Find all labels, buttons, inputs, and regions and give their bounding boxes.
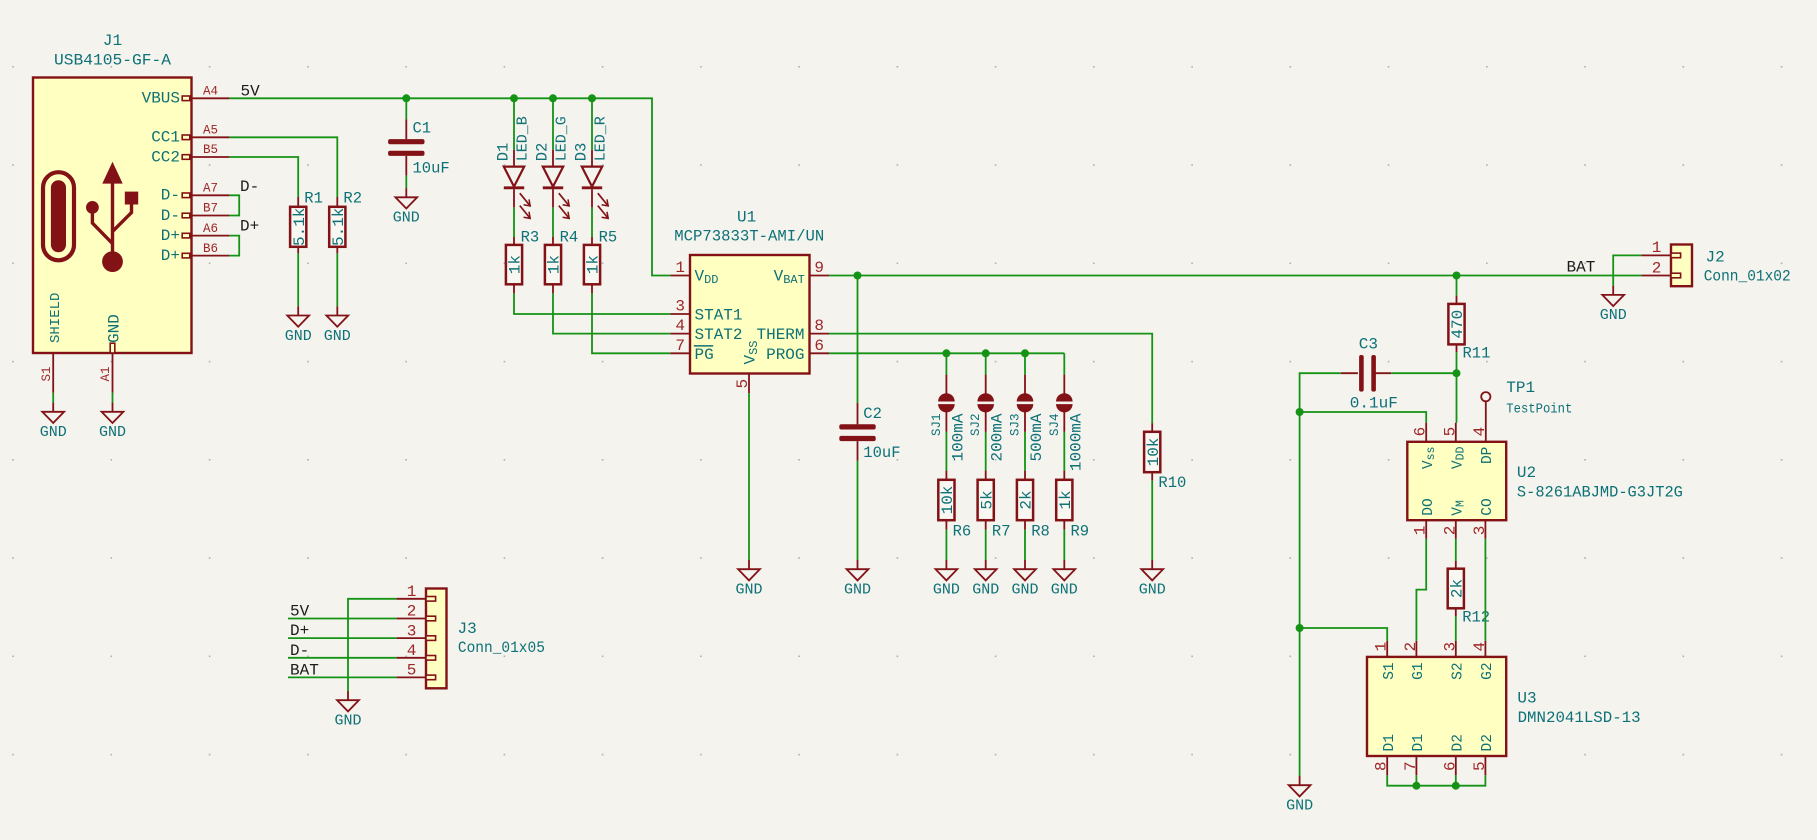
ground under R1 bbox=[285, 306, 312, 345]
svg-text:8: 8 bbox=[1373, 761, 1391, 771]
wire D+ to J3 bbox=[288, 637, 397, 639]
resistor R12 2k bbox=[1448, 561, 1490, 627]
U3 bottom bus wire bbox=[1387, 775, 1485, 785]
svg-text:LED_R: LED_R bbox=[593, 116, 610, 161]
svg-text:B7: B7 bbox=[203, 202, 218, 216]
wire PROG to SJ4 bbox=[1063, 353, 1065, 374]
svg-text:A5: A5 bbox=[203, 124, 218, 138]
wire S1 to ground bbox=[52, 393, 54, 403]
J3 pin 2 bbox=[397, 603, 436, 621]
svg-text:R5: R5 bbox=[599, 229, 618, 247]
wire A1 to ground bbox=[112, 393, 114, 403]
svg-text:BAT: BAT bbox=[1567, 259, 1596, 277]
ground under R9 bbox=[1051, 560, 1078, 599]
svg-text:R7: R7 bbox=[992, 522, 1011, 540]
junction C1 on 5V rail bbox=[402, 94, 410, 102]
J1 pin A1 GND bbox=[99, 314, 123, 393]
wire U2 VM to R12 bbox=[1455, 539, 1457, 561]
wire R9 to ground bbox=[1063, 530, 1065, 560]
ground under S1 bbox=[40, 403, 67, 442]
svg-text:GND: GND bbox=[933, 582, 960, 599]
junction SJ3 on PROG wire bbox=[1021, 349, 1029, 357]
svg-text:GND: GND bbox=[105, 314, 123, 343]
svg-text:SJ2: SJ2 bbox=[969, 414, 983, 437]
U1 pin 5 VSS bbox=[734, 340, 761, 393]
svg-text:1: 1 bbox=[1373, 642, 1391, 652]
U3 pin 8 D1 bbox=[1373, 734, 1398, 775]
svg-text:3: 3 bbox=[1441, 642, 1459, 652]
LED D3 LED_R bbox=[573, 116, 610, 218]
junction SJ2 on PROG wire bbox=[982, 349, 990, 357]
ground under R10 bbox=[1139, 560, 1166, 599]
svg-text:D3: D3 bbox=[573, 143, 591, 162]
wire R5 to PG bbox=[592, 293, 670, 353]
connector J1 USB4105-GF-A bbox=[33, 32, 192, 353]
svg-text:GND: GND bbox=[1051, 582, 1078, 599]
svg-text:D+: D+ bbox=[290, 622, 309, 640]
svg-text:9: 9 bbox=[814, 259, 824, 277]
svg-text:TP1: TP1 bbox=[1506, 379, 1535, 397]
J3 pin 5 bbox=[397, 662, 436, 680]
svg-text:0.1uF: 0.1uF bbox=[1350, 395, 1398, 413]
resistor R3 1k bbox=[506, 229, 539, 294]
svg-text:2: 2 bbox=[407, 603, 417, 621]
junction C3/R11/U2-VDD node bbox=[1453, 369, 1461, 377]
wire R8 to ground bbox=[1024, 530, 1026, 560]
U3 pin 5 D2 bbox=[1471, 734, 1496, 775]
U3 pin 4 G2 bbox=[1471, 641, 1496, 680]
junction left rail to U2 Vss bbox=[1296, 408, 1304, 416]
LED D2 LED_G bbox=[534, 116, 571, 218]
IC U3 DMN2041LSD-13 bbox=[1367, 657, 1641, 756]
IC U2 S-8261ABJMD-G3JT2G bbox=[1407, 442, 1683, 520]
wire R6 to ground bbox=[945, 530, 947, 560]
svg-text:R9: R9 bbox=[1071, 522, 1090, 540]
connector J2 Conn_01x02 bbox=[1671, 245, 1791, 287]
wire D2 to R4 bbox=[552, 207, 554, 237]
ground under C2 bbox=[844, 560, 871, 599]
svg-text:B5: B5 bbox=[203, 143, 218, 157]
U1 pin 6 PROG bbox=[766, 337, 829, 364]
svg-text:D1: D1 bbox=[1382, 734, 1398, 751]
wire left rail to U2 Vss bbox=[1300, 412, 1427, 423]
svg-text:G1: G1 bbox=[1411, 662, 1427, 679]
ground under R7 bbox=[972, 560, 999, 599]
svg-text:5: 5 bbox=[734, 379, 752, 389]
svg-text:D1: D1 bbox=[1411, 734, 1427, 751]
svg-text:3: 3 bbox=[675, 298, 685, 316]
ground under C1 bbox=[393, 188, 420, 227]
J1 USB receptacle glyph bbox=[43, 172, 74, 260]
svg-text:LED_B: LED_B bbox=[515, 116, 532, 161]
wire R10 to ground bbox=[1151, 481, 1153, 560]
svg-text:R3: R3 bbox=[521, 229, 540, 247]
resistor R4 1k bbox=[545, 229, 578, 294]
svg-text:4: 4 bbox=[1471, 427, 1489, 437]
U3 pin 7 D1 bbox=[1402, 734, 1427, 775]
svg-text:2k: 2k bbox=[1018, 490, 1036, 509]
U3 pin 3 S2 bbox=[1441, 641, 1466, 680]
svg-text:R8: R8 bbox=[1031, 522, 1050, 540]
wire left rail to U3 S1 bbox=[1300, 628, 1388, 641]
svg-text:B6: B6 bbox=[203, 242, 218, 256]
U3 pin 2 G1 bbox=[1402, 641, 1427, 680]
svg-text:200mA: 200mA bbox=[989, 413, 1007, 461]
resistor R6 10k bbox=[938, 471, 971, 541]
resistor R1 5.1k bbox=[290, 189, 323, 253]
svg-text:5.1k: 5.1k bbox=[330, 208, 348, 246]
junction U3 pin6 bbox=[1452, 782, 1460, 790]
wire SJ3 to R8 bbox=[1024, 432, 1026, 471]
svg-text:S2: S2 bbox=[1451, 662, 1467, 679]
ground under U1 bbox=[735, 560, 762, 599]
wire R4 to STAT2 bbox=[553, 293, 670, 333]
svg-text:A1: A1 bbox=[99, 366, 113, 381]
wire BAT to R11 bbox=[1456, 276, 1458, 296]
svg-text:C3: C3 bbox=[1359, 336, 1378, 354]
svg-text:DP: DP bbox=[1480, 447, 1496, 464]
svg-text:6: 6 bbox=[1441, 761, 1459, 771]
svg-text:GND: GND bbox=[972, 582, 999, 599]
svg-text:D2: D2 bbox=[1451, 734, 1467, 751]
svg-text:S1: S1 bbox=[40, 366, 54, 381]
svg-text:1: 1 bbox=[1652, 239, 1662, 257]
connector J3 Conn_01x05 bbox=[426, 589, 545, 689]
junction U3 pin7 bbox=[1412, 782, 1420, 790]
svg-text:SJ1: SJ1 bbox=[930, 414, 944, 437]
wire D- to J3 bbox=[288, 657, 397, 659]
wire SJ4 to R9 bbox=[1063, 432, 1065, 471]
svg-text:R4: R4 bbox=[560, 229, 579, 247]
svg-text:D-: D- bbox=[161, 187, 180, 205]
svg-text:STAT2: STAT2 bbox=[695, 326, 743, 344]
svg-text:1k: 1k bbox=[585, 255, 603, 274]
wire U3 pin7 to bus bbox=[1415, 775, 1417, 785]
wire 5V to C1 bbox=[405, 98, 407, 119]
svg-text:SHIELD: SHIELD bbox=[48, 293, 64, 343]
svg-text:MCP73833T-AMI/UN: MCP73833T-AMI/UN bbox=[674, 228, 824, 246]
J1 pin A4 VBUS bbox=[142, 85, 230, 108]
svg-text:USB4105-GF-A: USB4105-GF-A bbox=[54, 52, 171, 70]
J1 pin A6 D+ bbox=[161, 222, 230, 245]
U3 pin 6 D2 bbox=[1441, 734, 1466, 775]
junction R11 on BAT rail bbox=[1453, 272, 1461, 280]
svg-text:LED_G: LED_G bbox=[554, 116, 571, 161]
resistor R7 5k bbox=[978, 471, 1011, 541]
svg-text:BAT: BAT bbox=[290, 661, 319, 679]
wire BAT to C2 bbox=[857, 276, 859, 404]
wire C3 left to left rail bbox=[1300, 373, 1341, 776]
svg-text:CO: CO bbox=[1480, 498, 1496, 515]
svg-text:J2: J2 bbox=[1706, 249, 1725, 267]
svg-text:GND: GND bbox=[1139, 582, 1166, 599]
wire SJ1 to R6 bbox=[945, 432, 947, 471]
svg-text:4: 4 bbox=[1471, 642, 1489, 652]
svg-text:5: 5 bbox=[407, 662, 417, 680]
J2 pin 2 bbox=[1642, 259, 1681, 278]
svg-text:1: 1 bbox=[407, 583, 417, 601]
junction SJ1 on PROG wire bbox=[942, 349, 950, 357]
svg-text:5V: 5V bbox=[290, 603, 310, 621]
svg-text:D2: D2 bbox=[1480, 734, 1496, 751]
resistor R5 1k bbox=[584, 229, 617, 294]
svg-text:GND: GND bbox=[1286, 798, 1313, 815]
wire U3 pin6 to bus bbox=[1455, 775, 1457, 785]
svg-text:R10: R10 bbox=[1158, 474, 1186, 492]
svg-text:VBUS: VBUS bbox=[142, 90, 180, 108]
J1 pin S1 SHIELD bbox=[40, 293, 64, 393]
wire U1 VSS to ground bbox=[748, 393, 750, 560]
svg-text:D-: D- bbox=[290, 642, 309, 660]
ground under left rail bbox=[1286, 776, 1313, 815]
J1 pin B7 D- bbox=[161, 202, 230, 225]
svg-text:5: 5 bbox=[1441, 427, 1459, 437]
wire U2 DO to U3 G1 bbox=[1416, 539, 1426, 641]
svg-text:STAT1: STAT1 bbox=[695, 307, 743, 325]
svg-text:1k: 1k bbox=[1057, 490, 1075, 509]
svg-text:S1: S1 bbox=[1382, 662, 1398, 679]
wire 5V to D1 bbox=[513, 98, 515, 149]
svg-text:1: 1 bbox=[1412, 526, 1430, 536]
junction D3 on 5V rail bbox=[588, 94, 596, 102]
J1 pin B6 D+ bbox=[161, 242, 230, 265]
U2 pin 5 VDD bbox=[1441, 423, 1467, 469]
svg-text:U2: U2 bbox=[1517, 464, 1536, 482]
5V rail wire bbox=[229, 98, 670, 275]
ground under J3 bbox=[334, 691, 361, 730]
PROG wire bbox=[829, 352, 1064, 354]
svg-text:470: 470 bbox=[1449, 310, 1467, 339]
wire node to U2 VDD bbox=[1456, 373, 1458, 423]
svg-text:2: 2 bbox=[1652, 259, 1662, 277]
wire R2 to ground bbox=[336, 253, 338, 306]
svg-text:4: 4 bbox=[675, 317, 685, 335]
U1 pin 8 THERM bbox=[756, 317, 829, 344]
svg-text:D-: D- bbox=[240, 178, 259, 196]
ground under R6 bbox=[933, 560, 960, 599]
svg-text:GND: GND bbox=[285, 328, 312, 345]
wire C2 to ground bbox=[857, 461, 859, 560]
U2 pin 6 Vss bbox=[1412, 423, 1438, 469]
wire 5V to J3 bbox=[288, 618, 397, 620]
J1 pin A7 D- bbox=[161, 182, 230, 205]
svg-text:SJ4: SJ4 bbox=[1048, 414, 1062, 437]
U1 pin 1 VDD bbox=[670, 259, 718, 287]
svg-text:500mA: 500mA bbox=[1028, 413, 1046, 461]
svg-text:A7: A7 bbox=[203, 182, 218, 196]
wire C1 to ground bbox=[405, 176, 407, 188]
solder jumper SJ3 500mA bbox=[1009, 375, 1047, 462]
svg-text:J3: J3 bbox=[458, 620, 477, 638]
svg-text:GND: GND bbox=[393, 210, 420, 227]
svg-text:CC1: CC1 bbox=[151, 129, 180, 147]
U2 pin 2 VM bbox=[1441, 500, 1467, 539]
wire D+ pair bbox=[229, 236, 239, 256]
capacitor C1 10uF bbox=[388, 119, 450, 177]
U2 pin 4 DP bbox=[1471, 427, 1496, 464]
svg-text:G2: G2 bbox=[1480, 662, 1496, 679]
svg-text:Conn_01x05: Conn_01x05 bbox=[458, 639, 545, 657]
svg-text:J1: J1 bbox=[103, 32, 122, 50]
svg-text:THERM: THERM bbox=[756, 326, 804, 344]
resistor R8 2k bbox=[1017, 471, 1050, 541]
svg-text:5.1k: 5.1k bbox=[291, 208, 309, 246]
U1 pin 7 PG bbox=[670, 337, 713, 364]
solder jumper SJ1 100mA bbox=[930, 375, 968, 462]
U2 pin 3 CO bbox=[1471, 498, 1496, 539]
ground under A1 bbox=[99, 403, 126, 442]
solder jumper SJ2 200mA bbox=[969, 375, 1007, 462]
svg-text:7: 7 bbox=[1402, 761, 1420, 771]
wire BAT to J3 bbox=[288, 676, 397, 678]
J3 pin 4 bbox=[397, 642, 436, 660]
wire D3 to R5 bbox=[591, 207, 593, 237]
svg-text:Conn_01x02: Conn_01x02 bbox=[1704, 268, 1791, 286]
svg-text:3: 3 bbox=[1471, 526, 1489, 536]
U1 pin 3 STAT1 bbox=[670, 298, 742, 325]
svg-text:8: 8 bbox=[814, 317, 824, 335]
svg-text:R6: R6 bbox=[953, 522, 972, 540]
LED D1 LED_B bbox=[495, 116, 532, 218]
svg-text:1: 1 bbox=[675, 259, 685, 277]
svg-text:1000mA: 1000mA bbox=[1067, 413, 1085, 471]
svg-text:2k: 2k bbox=[1448, 579, 1466, 598]
J3 pin 1 bbox=[397, 583, 436, 601]
ground under R8 bbox=[1011, 560, 1038, 599]
svg-text:R2: R2 bbox=[343, 189, 362, 207]
J1 pin A5 CC1 bbox=[151, 124, 229, 147]
junction left rail to U3 S1 bbox=[1296, 624, 1304, 632]
wire R7 to ground bbox=[985, 530, 987, 560]
svg-text:D1: D1 bbox=[495, 143, 513, 162]
svg-text:D-: D- bbox=[161, 207, 180, 225]
svg-text:6: 6 bbox=[814, 337, 824, 355]
wire U2 CO to U3 G2 bbox=[1484, 539, 1486, 641]
svg-text:GND: GND bbox=[324, 328, 351, 345]
U1 pin 4 STAT2 bbox=[670, 317, 742, 344]
wire R1 to ground bbox=[297, 253, 299, 306]
svg-text:SJ3: SJ3 bbox=[1009, 414, 1023, 437]
J3 pin 3 bbox=[397, 622, 436, 640]
wire CC2 to R1 bbox=[229, 157, 298, 197]
svg-text:D2: D2 bbox=[534, 143, 552, 162]
wire CC1 to R2 bbox=[229, 137, 337, 197]
svg-text:A4: A4 bbox=[203, 85, 218, 99]
svg-text:CC2: CC2 bbox=[151, 148, 180, 166]
svg-text:3: 3 bbox=[407, 622, 417, 640]
svg-text:GND: GND bbox=[334, 713, 361, 730]
svg-text:GND: GND bbox=[844, 582, 871, 599]
svg-text:10uF: 10uF bbox=[863, 444, 900, 462]
J2 pin 1 bbox=[1642, 239, 1681, 258]
svg-text:PG: PG bbox=[695, 346, 714, 364]
wire J3 pin1 to ground bbox=[348, 599, 397, 691]
svg-text:A6: A6 bbox=[203, 222, 218, 236]
wire R11 to C3 node bbox=[1456, 352, 1458, 373]
svg-text:U1: U1 bbox=[737, 208, 756, 226]
wire D1 to R3 bbox=[513, 207, 515, 237]
wire PROG to SJ1 bbox=[945, 353, 947, 374]
svg-text:GND: GND bbox=[99, 424, 126, 441]
svg-text:DMN2041LSD-13: DMN2041LSD-13 bbox=[1518, 709, 1641, 727]
capacitor C3 0.1uF bbox=[1341, 336, 1398, 413]
svg-text:1k: 1k bbox=[507, 255, 525, 274]
resistor R9 1k bbox=[1056, 471, 1089, 541]
svg-text:GND: GND bbox=[40, 424, 67, 441]
U3 pin 1 S1 bbox=[1373, 641, 1398, 680]
junction D1 on 5V rail bbox=[510, 94, 518, 102]
svg-text:1k: 1k bbox=[546, 255, 564, 274]
test point TP1 bbox=[1481, 379, 1572, 442]
ground under R2 bbox=[324, 306, 351, 345]
ground under J2 bbox=[1600, 286, 1627, 325]
IC U1 MCP73833T-AMI/UN bbox=[674, 208, 824, 373]
junction C2 on BAT rail bbox=[854, 272, 862, 280]
svg-text:R11: R11 bbox=[1463, 345, 1491, 363]
wire J2 pin1 to ground bbox=[1613, 255, 1641, 285]
svg-text:D+: D+ bbox=[161, 227, 180, 245]
svg-text:10k: 10k bbox=[1145, 438, 1163, 467]
resistor R2 5.1k bbox=[329, 189, 362, 253]
svg-text:5: 5 bbox=[1471, 761, 1489, 771]
svg-text:C1: C1 bbox=[413, 120, 432, 138]
svg-text:D+: D+ bbox=[161, 247, 180, 265]
svg-text:S-8261ABJMD-G3JT2G: S-8261ABJMD-G3JT2G bbox=[1517, 484, 1683, 502]
resistor R10 10k bbox=[1144, 423, 1186, 492]
BAT rail wire bbox=[829, 275, 1642, 277]
svg-text:U3: U3 bbox=[1517, 689, 1536, 707]
svg-text:GND: GND bbox=[1011, 582, 1038, 599]
svg-text:2: 2 bbox=[1402, 642, 1420, 652]
svg-text:GND: GND bbox=[1600, 307, 1627, 324]
wire SJ2 to R7 bbox=[985, 432, 987, 471]
svg-text:PROG: PROG bbox=[766, 346, 804, 364]
svg-text:C2: C2 bbox=[863, 405, 882, 423]
svg-text:TestPoint: TestPoint bbox=[1506, 402, 1572, 418]
wire 5V to D3 bbox=[591, 98, 593, 149]
solder jumper SJ4 1000mA bbox=[1048, 375, 1086, 472]
wire PROG to SJ2 bbox=[985, 353, 987, 374]
wire THERM to R10 bbox=[829, 334, 1152, 424]
svg-text:10uF: 10uF bbox=[413, 160, 450, 178]
svg-text:DO: DO bbox=[1421, 498, 1437, 515]
svg-text:D+: D+ bbox=[240, 218, 259, 236]
wire D- pair bbox=[229, 195, 239, 215]
svg-text:2: 2 bbox=[1441, 526, 1459, 536]
junction D2 on 5V rail bbox=[549, 94, 557, 102]
svg-text:6: 6 bbox=[1412, 427, 1430, 437]
svg-text:100mA: 100mA bbox=[949, 413, 967, 461]
svg-text:5V: 5V bbox=[241, 82, 261, 100]
U2 pin 1 DO bbox=[1412, 498, 1437, 539]
resistor R11 470 bbox=[1448, 296, 1490, 363]
svg-text:10k: 10k bbox=[939, 486, 957, 515]
J1 pin B5 CC2 bbox=[151, 143, 229, 166]
wire 5V to D2 bbox=[552, 98, 554, 149]
wire R12 to U3 S2 bbox=[1455, 616, 1457, 641]
J1 USB trident glyph bbox=[86, 162, 138, 272]
svg-text:4: 4 bbox=[407, 642, 417, 660]
wire PROG to SJ3 bbox=[1024, 353, 1026, 374]
svg-text:5k: 5k bbox=[978, 490, 996, 509]
capacitor C2 10uF bbox=[839, 403, 900, 462]
U1 pin 9 VBAT bbox=[774, 259, 829, 287]
svg-text:GND: GND bbox=[735, 582, 762, 599]
wire R3 to STAT1 bbox=[514, 293, 670, 314]
svg-text:7: 7 bbox=[675, 337, 685, 355]
svg-text:R1: R1 bbox=[304, 189, 323, 207]
wire C3 right to node bbox=[1391, 372, 1456, 374]
